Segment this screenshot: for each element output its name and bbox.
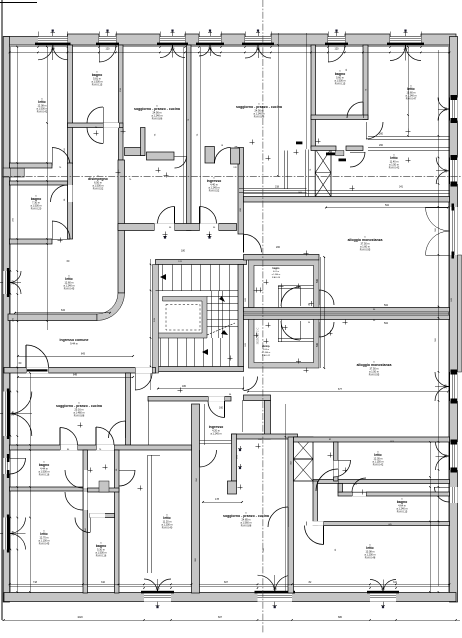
svg-text:R.AI 0.15: R.AI 0.15 xyxy=(335,82,346,85)
svg-text:506: 506 xyxy=(316,278,319,283)
svg-text:ingresso comune: ingresso comune xyxy=(60,338,89,342)
svg-text:200: 200 xyxy=(208,48,213,51)
svg-text:4.01 m: 4.01 m xyxy=(273,271,279,273)
svg-text:ingresso: ingresso xyxy=(209,425,224,429)
svg-text:634: 634 xyxy=(61,309,66,312)
svg-text:310: 310 xyxy=(101,581,106,584)
svg-text:R.AI 0.45: R.AI 0.45 xyxy=(64,287,75,290)
svg-text:R.AI 0.15: R.AI 0.15 xyxy=(92,83,103,86)
svg-text:260: 260 xyxy=(379,133,384,136)
svg-text:disimp.: disimp. xyxy=(262,346,270,348)
svg-text:2.64 m: 2.64 m xyxy=(263,349,269,351)
svg-text:R.AI 0.52: R.AI 0.52 xyxy=(93,187,104,190)
svg-text:150: 150 xyxy=(273,588,278,591)
svg-text:R.AI 0.88: R.AI 0.88 xyxy=(241,524,252,527)
svg-text:R.AI 0.48: R.AI 0.48 xyxy=(365,556,376,559)
svg-text:180: 180 xyxy=(182,385,187,388)
svg-text:R.AI 0.47: R.AI 0.47 xyxy=(406,97,417,100)
svg-text:R.AI 0.88: R.AI 0.88 xyxy=(74,414,85,417)
svg-text:506: 506 xyxy=(316,342,319,347)
svg-text:9.44 m: 9.44 m xyxy=(70,343,78,346)
svg-text:607: 607 xyxy=(218,616,223,619)
svg-text:260: 260 xyxy=(379,144,384,147)
svg-text:1020: 1020 xyxy=(77,616,83,619)
svg-text:R.AI 0.95: R.AI 0.95 xyxy=(360,248,371,251)
svg-text:130: 130 xyxy=(381,588,386,591)
svg-text:843: 843 xyxy=(81,353,86,356)
svg-text:R.AI 0.16: R.AI 0.16 xyxy=(39,473,50,476)
svg-text:R.AI 0.40: R.AI 0.40 xyxy=(162,526,173,529)
svg-text:R.AI 0.42: R.AI 0.42 xyxy=(37,110,48,113)
svg-text:298: 298 xyxy=(51,48,56,51)
svg-text:R.AI 0.16: R.AI 0.16 xyxy=(96,554,107,557)
svg-text:a 1.500 m: a 1.500 m xyxy=(272,274,281,276)
svg-text:848: 848 xyxy=(73,374,78,377)
svg-text:502: 502 xyxy=(384,304,389,307)
svg-text:120: 120 xyxy=(335,48,340,51)
svg-text:R.AI 0.16: R.AI 0.16 xyxy=(272,276,280,279)
svg-text:R.AI 0.20: R.AI 0.20 xyxy=(31,207,42,210)
svg-text:R.AI 0.86: R.AI 0.86 xyxy=(254,115,265,118)
svg-text:R.AI 0.42: R.AI 0.42 xyxy=(389,166,400,169)
svg-text:220: 220 xyxy=(11,280,14,285)
svg-text:120: 120 xyxy=(445,106,448,111)
svg-text:341: 341 xyxy=(399,186,404,189)
svg-text:677: 677 xyxy=(338,388,343,391)
svg-text:200: 200 xyxy=(276,246,281,249)
svg-text:R.AI 0.45: R.AI 0.45 xyxy=(39,542,50,545)
svg-text:230: 230 xyxy=(256,48,261,51)
svg-text:160: 160 xyxy=(219,407,224,410)
svg-text:680: 680 xyxy=(338,616,343,619)
svg-text:120: 120 xyxy=(445,453,448,458)
svg-text:R.AI 0.95: R.AI 0.95 xyxy=(369,373,380,376)
svg-text:178: 178 xyxy=(215,498,220,501)
svg-text:298: 298 xyxy=(404,48,409,51)
svg-text:718: 718 xyxy=(33,581,38,584)
svg-text:bagno: bagno xyxy=(273,268,280,270)
svg-text:607: 607 xyxy=(224,581,229,584)
svg-text:502: 502 xyxy=(384,322,389,325)
svg-text:R.AI 0.42: R.AI 0.42 xyxy=(373,463,384,466)
svg-text:502: 502 xyxy=(385,204,390,207)
svg-text:120: 120 xyxy=(106,48,111,51)
svg-text:R.AI 0.86: R.AI 0.86 xyxy=(152,117,163,120)
svg-text:230: 230 xyxy=(171,48,176,51)
svg-text:318: 318 xyxy=(275,185,280,188)
svg-text:R.AI 0.52: R.AI 0.52 xyxy=(209,189,220,192)
svg-text:R.AI 0.15: R.AI 0.15 xyxy=(397,510,408,513)
svg-text:130: 130 xyxy=(156,588,161,591)
svg-text:341: 341 xyxy=(393,581,398,584)
svg-text:298: 298 xyxy=(445,384,448,389)
svg-text:180: 180 xyxy=(181,250,186,253)
svg-text:120: 120 xyxy=(445,168,448,173)
svg-text:R.AI 0.12: R.AI 0.12 xyxy=(262,354,270,357)
svg-text:a 1.245 m: a 1.245 m xyxy=(210,433,221,436)
